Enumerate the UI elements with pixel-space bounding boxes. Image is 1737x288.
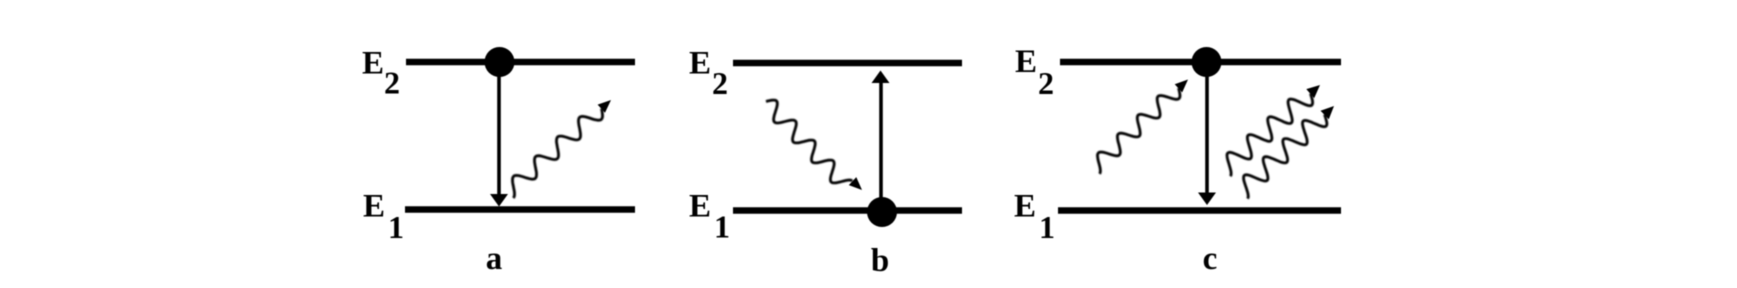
upward transition arrow (b)	[879, 82, 883, 203]
energy level E1 line (c)	[1058, 207, 1341, 214]
emitted photon wavy arrow (a)	[513, 109, 603, 199]
svg-text:a: a	[486, 241, 503, 277]
energy level E2 line (b)	[733, 60, 962, 67]
svg-text:2: 2	[712, 65, 728, 101]
svg-text:2: 2	[1038, 65, 1054, 101]
svg-text:E: E	[363, 189, 385, 225]
absorbed photon wavy arrow (b)	[766, 100, 852, 183]
svg-text:E: E	[1015, 44, 1037, 80]
emitted photon wavy arrow 1 (c)	[1227, 94, 1313, 177]
svg-text:E: E	[1014, 189, 1036, 225]
energy level E1 line (b)	[733, 207, 962, 214]
electron dot on E2 (c)	[1192, 47, 1222, 77]
downward transition arrow (a)	[497, 70, 501, 195]
svg-text:E: E	[689, 189, 711, 225]
svg-text:1: 1	[388, 209, 404, 245]
energy level E1 line (a)	[405, 206, 635, 213]
energy level E2 line (c)	[1060, 59, 1341, 66]
svg-text:1: 1	[714, 209, 730, 245]
svg-text:E: E	[689, 46, 711, 82]
energy level E2 line (a)	[406, 59, 635, 66]
svg-text:c: c	[1203, 241, 1218, 277]
downward transition arrow (c)	[1205, 70, 1209, 193]
incident photon wavy arrow (c)	[1098, 88, 1181, 174]
electron dot on E2 (a)	[485, 47, 515, 77]
svg-text:2: 2	[384, 65, 400, 101]
svg-text:1: 1	[1039, 209, 1055, 245]
svg-text:E: E	[362, 46, 384, 82]
svg-text:b: b	[871, 243, 889, 279]
emitted photon wavy arrow 2 (c)	[1244, 115, 1327, 199]
electron dot on E1 (b)	[867, 197, 897, 227]
